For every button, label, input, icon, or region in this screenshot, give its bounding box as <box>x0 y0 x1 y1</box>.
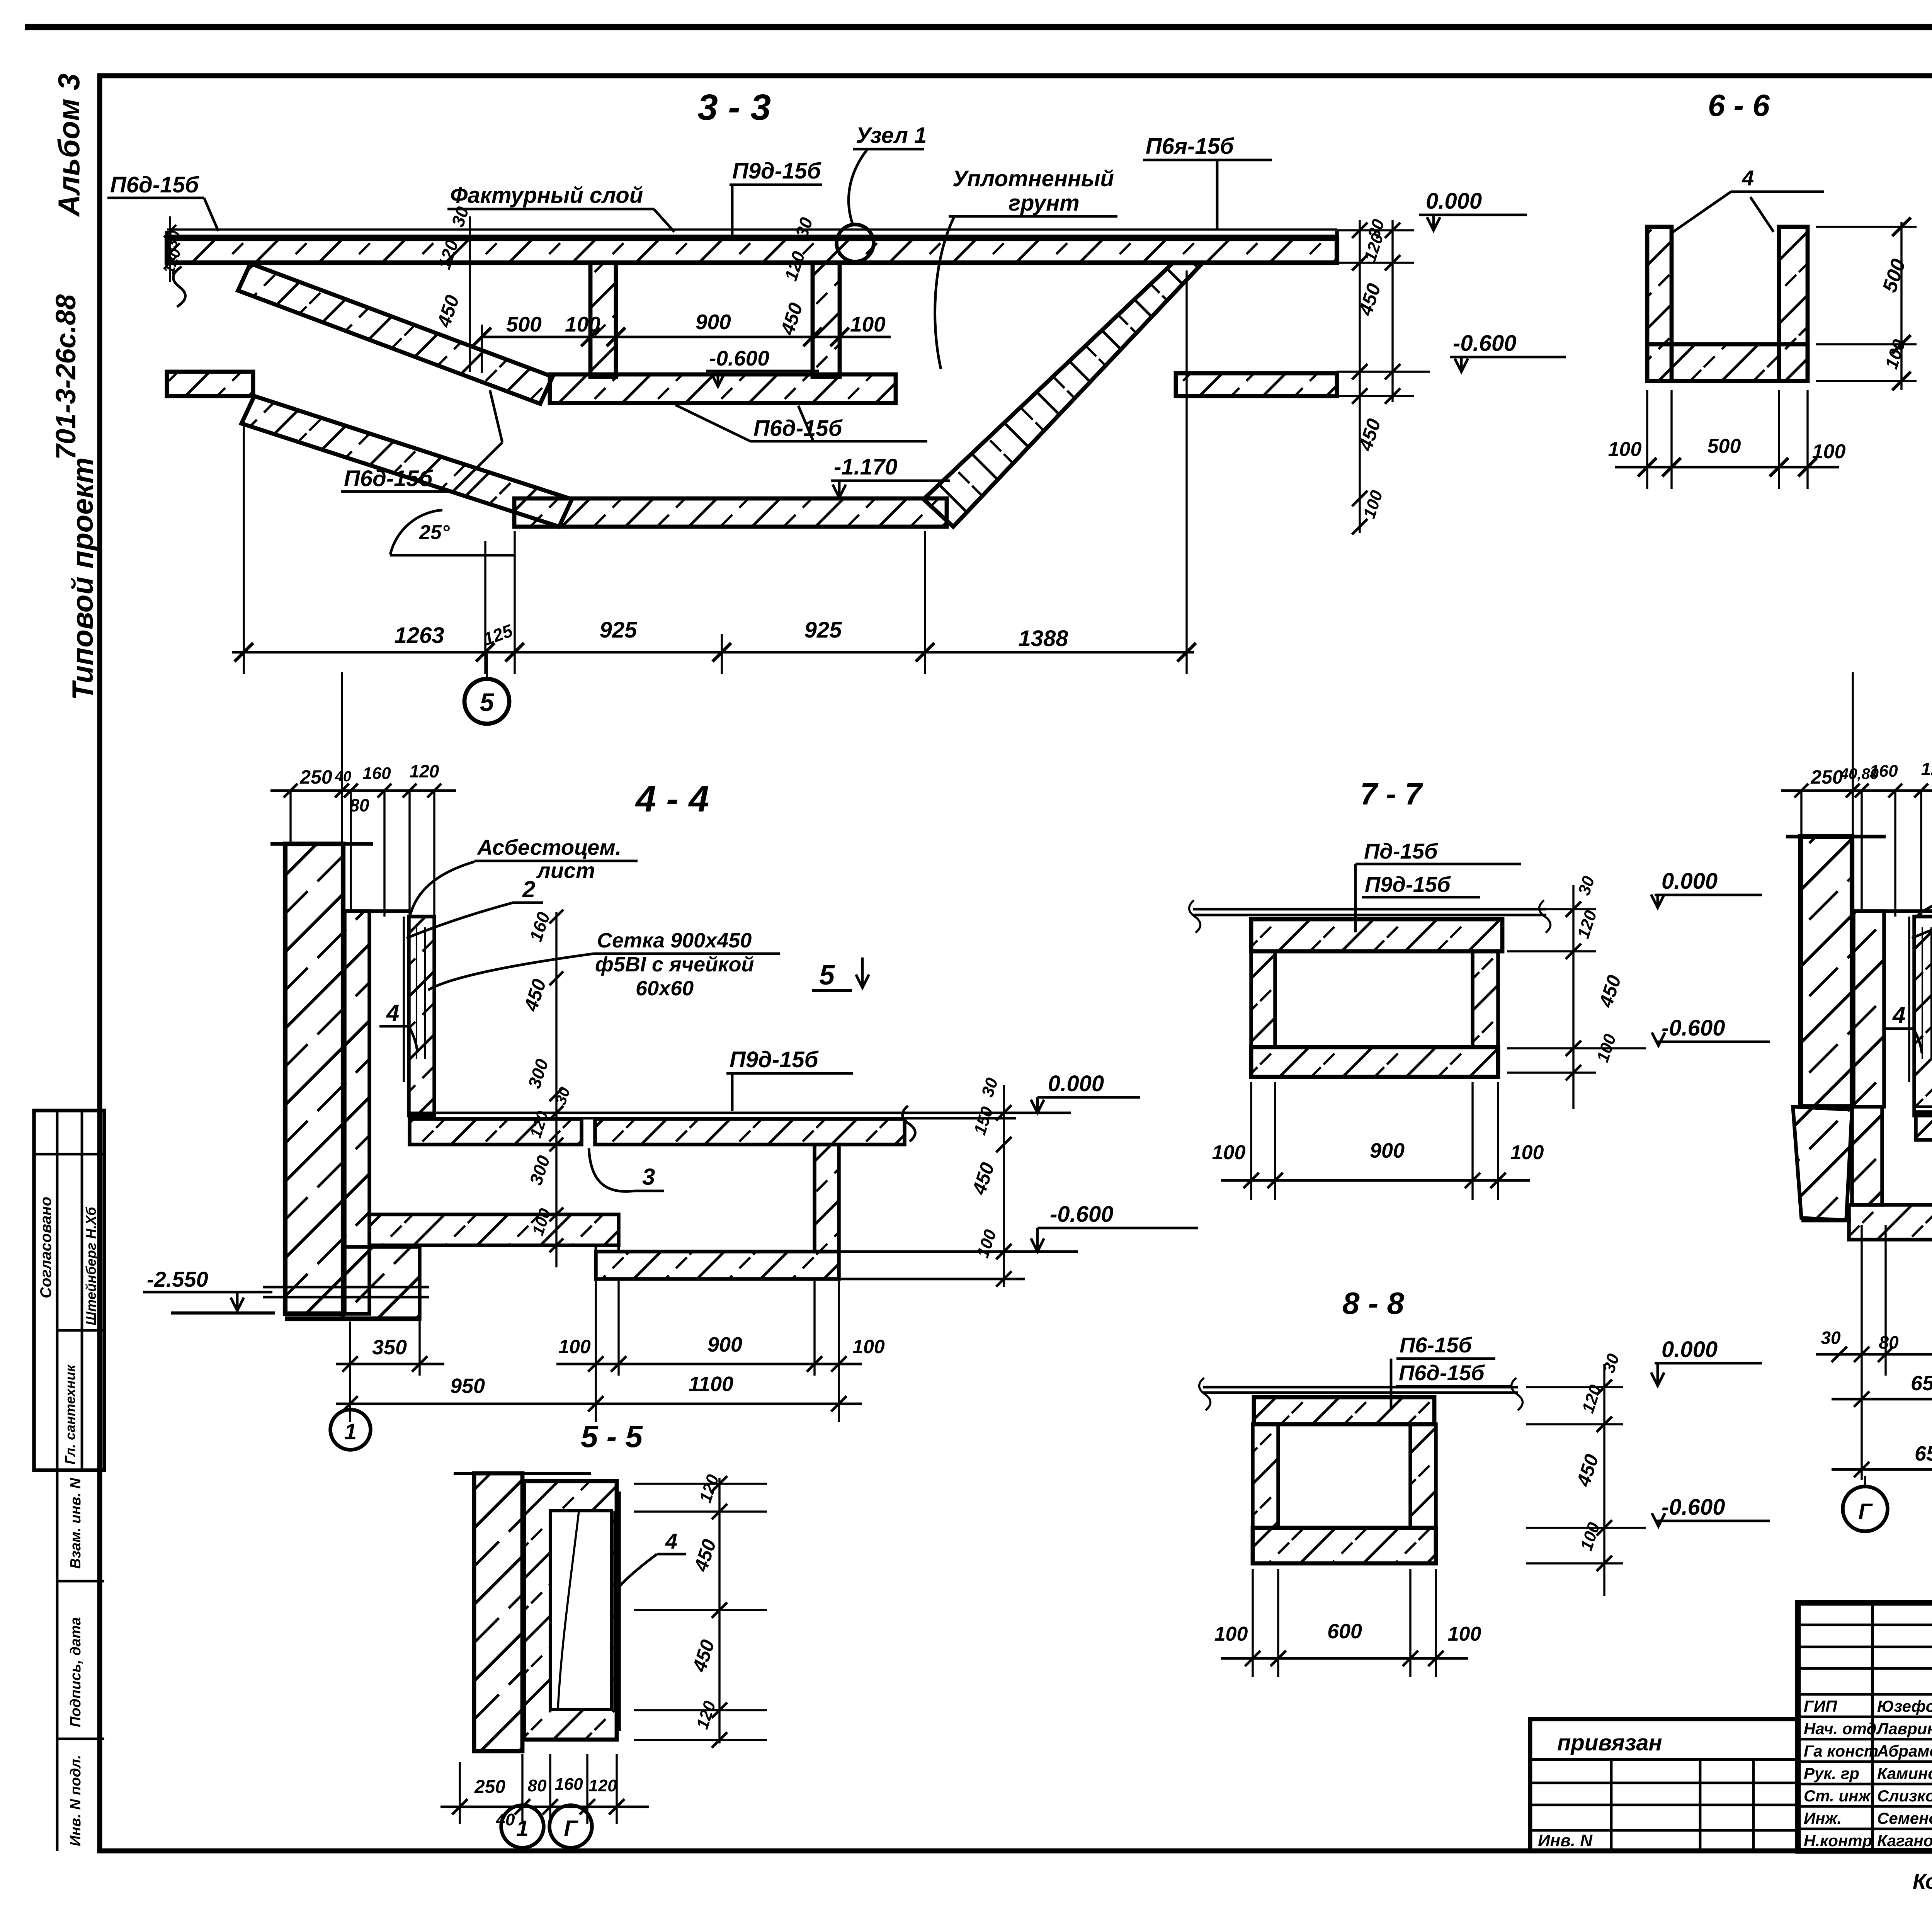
svg-text:120: 120 <box>588 1776 617 1795</box>
svg-text:900: 900 <box>696 310 731 334</box>
svg-text:600: 600 <box>1327 1620 1362 1643</box>
svg-text:30: 30 <box>1599 1351 1623 1375</box>
svg-text:450: 450 <box>776 300 807 338</box>
svg-text:Взам. инв. N: Взам. инв. N <box>68 1478 84 1569</box>
7-7 lid slab <box>1251 919 1502 951</box>
4-4 bottom dims 350 / 100 900 100 <box>336 1363 444 1366</box>
section 3-3 left ledge floor <box>167 372 253 396</box>
4-4 masonry wall <box>285 844 343 1314</box>
4-4 wall inner layer <box>345 911 369 1314</box>
svg-text:120: 120 <box>1921 759 1932 779</box>
svg-text:3 - 3: 3 - 3 <box>697 87 771 128</box>
4-4 top dim chain <box>270 789 456 792</box>
svg-text:5: 5 <box>480 688 495 716</box>
4-4 trench left ledge slab <box>369 1214 619 1245</box>
svg-text:Г: Г <box>564 1816 578 1841</box>
svg-text:Инв. N: Инв. N <box>1538 1831 1593 1850</box>
svg-text:900: 900 <box>707 1333 742 1356</box>
svg-text:ГИП: ГИП <box>1804 1697 1837 1715</box>
svg-text:4: 4 <box>1742 166 1754 190</box>
svg-text:Копировала: Копировала <box>1913 1869 1932 1893</box>
svg-text:0.000: 0.000 <box>1662 869 1718 894</box>
5-5 panel void <box>550 1511 612 1709</box>
8-8 lid slab <box>1254 1397 1434 1424</box>
svg-text:80: 80 <box>528 1776 547 1795</box>
6-6 right dim stack <box>1900 222 1902 390</box>
section 3-3 right ledge floor <box>1176 373 1337 396</box>
dims 650 800 dlya 11-11 <box>1832 1468 1932 1471</box>
svg-text:Гл. сантехник: Гл. сантехник <box>62 1364 78 1464</box>
7-7 floor level lines <box>1193 908 1546 911</box>
5-5 panel outer <box>524 1481 617 1740</box>
svg-text:900: 900 <box>1370 1139 1405 1162</box>
8-8 right dim stack <box>1603 1364 1605 1596</box>
10-10 top dim chain <box>1781 789 1932 792</box>
section 3-3 rib 2 <box>813 263 840 377</box>
svg-text:450: 450 <box>968 1160 998 1198</box>
svg-text:-0.600: -0.600 <box>1453 331 1516 356</box>
svg-text:100: 100 <box>558 1336 591 1357</box>
svg-text:Юзефович: Юзефович <box>1877 1697 1932 1715</box>
svg-text:Лавриненко: Лавриненко <box>1876 1719 1932 1738</box>
8-8 channel left wall <box>1253 1424 1278 1528</box>
datum circles 1 and G under 5-5 <box>501 1805 544 1848</box>
detail mark circle 5 <box>464 679 509 724</box>
svg-text:5 - 5: 5 - 5 <box>581 1419 643 1454</box>
svg-text:6 - 6: 6 - 6 <box>1708 88 1770 122</box>
svg-text:250: 250 <box>1810 766 1843 788</box>
svg-text:4: 4 <box>386 1000 399 1026</box>
svg-text:грунт: грунт <box>1009 190 1080 216</box>
svg-text:П6д-15б: П6д-15б <box>344 466 434 491</box>
svg-text:Узел 1: Узел 1 <box>856 123 927 148</box>
svg-text:Н.контр: Н.контр <box>1804 1832 1872 1850</box>
svg-text:925: 925 <box>600 617 638 643</box>
svg-text:250: 250 <box>299 766 332 788</box>
datum circle G under 10-10 <box>1843 1486 1888 1531</box>
8-8 bottom dims 100 600 100 <box>1221 1657 1468 1660</box>
svg-text:Га конст: Га конст <box>1804 1742 1878 1760</box>
svg-text:1100: 1100 <box>689 1372 733 1396</box>
svg-text:0.000: 0.000 <box>1662 1337 1718 1362</box>
svg-text:Семенова: Семенова <box>1877 1809 1932 1827</box>
section 3-3 floor finish lines <box>167 228 1337 230</box>
svg-text:Пд-15б: Пд-15б <box>1364 839 1438 863</box>
section 6-6 left wall <box>1647 227 1672 381</box>
svg-text:2: 2 <box>522 876 535 902</box>
svg-text:950: 950 <box>450 1374 485 1398</box>
section 6-6 bottom slab <box>1647 344 1808 381</box>
svg-text:100: 100 <box>850 312 886 336</box>
6-6 bottom dims 100 500 100 <box>1615 466 1839 469</box>
10-10 floor level lines <box>1914 1105 1932 1108</box>
4-4 floor slab left panel <box>410 1119 582 1145</box>
svg-text:925: 925 <box>804 617 842 643</box>
4-4 floor break mark <box>902 1106 915 1141</box>
svg-text:-0.600: -0.600 <box>1662 1015 1725 1041</box>
section 3-3 mid channel floor <box>550 374 896 403</box>
8-8 channel bottom slab <box>1253 1528 1436 1563</box>
svg-text:7 - 7: 7 - 7 <box>1360 777 1423 811</box>
svg-text:450: 450 <box>690 1537 720 1575</box>
svg-text:500: 500 <box>1878 256 1910 295</box>
8-8 floor level lines <box>1203 1386 1518 1389</box>
svg-text:Кагановская: Кагановская <box>1877 1832 1932 1850</box>
section 3-3 slab right edge <box>1335 231 1339 263</box>
svg-text:привязан: привязан <box>1557 1730 1662 1755</box>
10-10 channel wall panel <box>1914 917 1932 1116</box>
svg-text:100: 100 <box>1577 1520 1604 1553</box>
svg-text:120: 120 <box>1361 231 1387 264</box>
4-4 trench right wall <box>815 1145 839 1252</box>
svg-text:П6д-15б: П6д-15б <box>1399 1361 1485 1385</box>
section 3-3 bottom dimension chain <box>232 651 1194 654</box>
svg-text:120: 120 <box>160 247 184 276</box>
svg-text:100: 100 <box>852 1336 885 1357</box>
5-5 break line in void <box>558 1512 579 1709</box>
svg-text:1: 1 <box>344 1419 357 1444</box>
10-10 masonry wall <box>1801 837 1852 1107</box>
svg-text:4: 4 <box>1892 1002 1905 1028</box>
datum circle 1 under 4-4 <box>330 1410 371 1450</box>
svg-text:60х60: 60х60 <box>636 977 694 1000</box>
section 3-3 top slab <box>167 239 1337 263</box>
svg-text:-1.170: -1.170 <box>834 454 897 480</box>
section 3-3 left upper slope panel <box>238 264 553 404</box>
svg-text:Штейнберг Н.Хб: Штейнберг Н.Хб <box>83 1206 99 1325</box>
svg-text:160: 160 <box>1869 762 1898 781</box>
4-4 right dim stack <box>1003 1085 1005 1287</box>
title block frame <box>1798 1603 1932 1851</box>
svg-text:П9д-15б: П9д-15б <box>732 158 822 184</box>
svg-text:30: 30 <box>1821 1328 1841 1348</box>
svg-text:Типовой проект: Типовой проект <box>66 457 99 700</box>
4-4 bottom dims 950 1100 <box>336 1403 862 1405</box>
5-5 right dim stack <box>718 1478 720 1743</box>
5-5 wall <box>474 1473 522 1751</box>
title block signature column lines <box>1871 1603 1874 1851</box>
10-10 wall strip below floor <box>1852 1107 1882 1205</box>
svg-text:30: 30 <box>1575 874 1599 898</box>
dims left edge <box>169 216 171 282</box>
right dimension stack of 3-3 <box>1359 220 1361 533</box>
svg-text:120: 120 <box>410 761 439 781</box>
section 3-3 left lower slope panel <box>241 396 572 527</box>
4-4 trench bottom slab <box>596 1252 839 1279</box>
svg-text:450: 450 <box>1572 1452 1603 1490</box>
10-10 wall inner layer <box>1854 911 1884 1107</box>
svg-text:100: 100 <box>1510 1141 1544 1164</box>
svg-text:Инж.: Инж. <box>1804 1809 1842 1827</box>
svg-text:Подпись, дата: Подпись, дата <box>68 1617 84 1727</box>
svg-text:100: 100 <box>1593 1032 1620 1065</box>
sheet top edge <box>25 24 1932 30</box>
svg-text:160: 160 <box>526 910 554 944</box>
4-4 floor slab right panel <box>595 1119 905 1145</box>
5-5 bottom dims 250 80 160 120 <box>440 1806 649 1808</box>
svg-text:П9д-15б: П9д-15б <box>1365 872 1451 896</box>
svg-text:450: 450 <box>688 1637 719 1675</box>
svg-text:ф5ВI с ячейкой: ф5ВI с ячейкой <box>595 953 754 976</box>
7-7 channel left wall <box>1251 951 1275 1047</box>
section 3-3 right steep slope panel <box>923 263 1202 527</box>
svg-text:500: 500 <box>1708 435 1741 457</box>
svg-text:120: 120 <box>1574 908 1600 941</box>
svg-text:Г: Г <box>1858 1499 1873 1524</box>
svg-text:650: 650 <box>1911 1372 1932 1395</box>
svg-text:450: 450 <box>433 293 463 330</box>
svg-text:350: 350 <box>372 1336 407 1359</box>
svg-text:-0.600: -0.600 <box>1662 1495 1725 1520</box>
svg-text:П6я-15б: П6я-15б <box>1146 134 1235 159</box>
7-7 channel bottom slab <box>1251 1047 1498 1077</box>
svg-text:4 - 4: 4 - 4 <box>635 779 709 820</box>
svg-text:30: 30 <box>552 1085 574 1107</box>
svg-text:-0.600: -0.600 <box>709 346 769 370</box>
svg-text:300: 300 <box>524 1056 552 1091</box>
svg-text:3: 3 <box>642 1164 655 1190</box>
svg-text:120: 120 <box>693 1699 719 1731</box>
4-4 wall footing pad <box>343 1247 420 1319</box>
7-7 right dim stack <box>1572 885 1574 1109</box>
svg-text:П6д-15б: П6д-15б <box>110 172 200 197</box>
svg-text:100: 100 <box>1812 440 1846 463</box>
svg-text:160: 160 <box>362 764 391 783</box>
privyazan table <box>1530 1719 1798 1851</box>
svg-text:100: 100 <box>1448 1623 1481 1645</box>
7-7 bottom dims 100 900 100 <box>1221 1179 1530 1182</box>
svg-text:300: 300 <box>526 1153 554 1187</box>
svg-text:160: 160 <box>554 1775 583 1794</box>
svg-text:8 - 8: 8 - 8 <box>1342 1286 1405 1320</box>
svg-text:0.000: 0.000 <box>1048 1071 1104 1096</box>
section 6-6 right wall <box>1779 227 1808 381</box>
svg-text:Фактурный слой: Фактурный слой <box>450 183 643 208</box>
svg-text:1: 1 <box>516 1816 529 1841</box>
svg-text:1388: 1388 <box>1018 626 1068 651</box>
svg-text:80: 80 <box>349 795 369 815</box>
10-10 floor slab panels <box>1916 1112 1932 1140</box>
svg-text:1263: 1263 <box>394 623 444 648</box>
svg-text:450: 450 <box>1595 973 1625 1010</box>
svg-text:Нач. отд: Нач. отд <box>1804 1719 1876 1738</box>
8-8 channel right wall <box>1410 1424 1436 1528</box>
svg-text:Слизкой: Слизкой <box>1877 1787 1932 1805</box>
svg-text:-0.600: -0.600 <box>1050 1202 1113 1227</box>
svg-text:П6-15б: П6-15б <box>1400 1333 1472 1357</box>
svg-text:-2.550: -2.550 <box>147 1267 208 1291</box>
section 3-3 slab left edge and break <box>165 231 169 263</box>
svg-text:Уплотненный: Уплотненный <box>952 166 1114 191</box>
4-4 left dim stack <box>555 912 557 1267</box>
svg-text:Альбом 3: Альбом 3 <box>52 73 86 217</box>
section 3-3 rib 1 <box>590 263 616 377</box>
5-5 ground line <box>454 1472 591 1475</box>
left margin stamp table upper <box>34 1111 104 1470</box>
svg-text:П9д-15б: П9д-15б <box>730 1047 819 1072</box>
svg-text:Асбестоцем.: Асбестоцем. <box>476 835 621 859</box>
svg-text:701-3-26с.88: 701-3-26с.88 <box>51 294 82 460</box>
10-10 trench left ledge slab <box>1849 1205 1932 1240</box>
svg-text:П6д-15б: П6д-15б <box>753 416 843 441</box>
svg-text:650: 650 <box>1915 1442 1932 1465</box>
svg-text:250: 250 <box>474 1777 505 1797</box>
svg-text:5: 5 <box>819 960 835 991</box>
svg-text:100: 100 <box>1214 1623 1248 1645</box>
svg-text:100: 100 <box>1608 438 1642 461</box>
svg-text:0.000: 0.000 <box>1426 189 1482 214</box>
svg-text:450: 450 <box>520 976 550 1014</box>
svg-text:Инв. N подл.: Инв. N подл. <box>68 1755 84 1846</box>
svg-text:100: 100 <box>1881 337 1909 371</box>
7-7 channel right wall <box>1473 951 1498 1047</box>
4-4 floor level lines <box>409 1112 1071 1114</box>
svg-text:Сетка 900х450: Сетка 900х450 <box>597 929 752 952</box>
5-5 panel dashed edge <box>613 1511 615 1709</box>
svg-text:Рук. гр: Рук. гр <box>1804 1764 1859 1782</box>
svg-text:Абрамовский: Абрамовский <box>1877 1742 1932 1760</box>
left margin stamp cells lower <box>34 1469 104 1472</box>
svg-text:30: 30 <box>978 1075 1002 1099</box>
section 3-3 deep floor -1.170 <box>514 498 947 527</box>
svg-text:25°: 25° <box>419 521 450 544</box>
svg-text:100: 100 <box>1212 1141 1246 1164</box>
svg-text:4: 4 <box>665 1529 677 1553</box>
svg-text:150: 150 <box>970 1104 997 1137</box>
dims 650 1100 dlya 10-10 <box>1832 1398 1932 1401</box>
4-4 channel wall panel <box>409 917 434 1116</box>
uzel 1 detail circle <box>837 224 874 262</box>
svg-text:Согласовано: Согласовано <box>37 1197 54 1298</box>
10-10 left foundation wedge <box>1793 1107 1852 1220</box>
svg-text:Ст. инж: Ст. инж <box>1804 1787 1871 1805</box>
svg-text:500: 500 <box>506 312 542 336</box>
svg-text:Каминская: Каминская <box>1877 1764 1932 1782</box>
svg-text:100: 100 <box>973 1227 1000 1260</box>
